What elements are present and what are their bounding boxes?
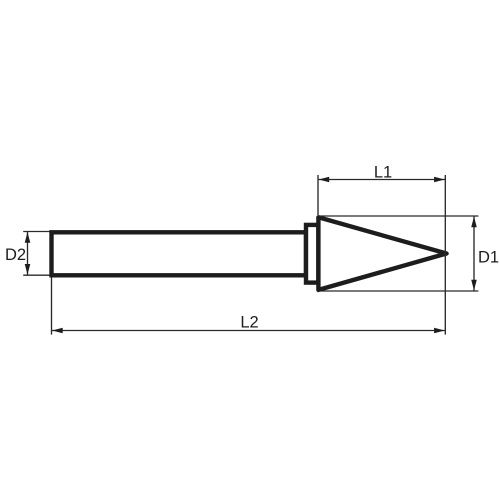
cone tip point (441, 250, 450, 257)
L1 left extension line (317, 175, 319, 215)
L2 left extension line (51, 277, 53, 334)
L1 left arrowhead (319, 177, 330, 183)
svg-text:L1: L1 (374, 163, 392, 181)
L1 dimension line (318, 179, 445, 181)
L2 dimension line (52, 330, 446, 332)
D2 dimension line (27, 232, 29, 276)
L1/L2 right extension line (through cone tip) (444, 175, 446, 335)
D1 top extension line (319, 215, 478, 217)
D2 top arrowhead (25, 232, 31, 243)
D2 top extension line (23, 231, 49, 233)
D1 top arrowhead (471, 217, 477, 228)
D1 bottom extension line (319, 290, 478, 292)
L1 right arrowhead (434, 177, 445, 183)
svg-text:L2: L2 (240, 314, 258, 332)
L2 left arrowhead (52, 328, 63, 334)
svg-text:D2: D2 (5, 246, 26, 264)
collar (306, 225, 318, 283)
shank (cylindrical body) (52, 232, 307, 275)
svg-text:D1: D1 (478, 248, 499, 266)
D2 bottom arrowhead (25, 264, 31, 275)
L2 right arrowhead (434, 328, 445, 334)
D2 bottom extension line (23, 274, 49, 276)
cone head (318, 217, 446, 290)
D1 dimension line (473, 216, 475, 291)
D1 bottom arrowhead (471, 280, 477, 291)
